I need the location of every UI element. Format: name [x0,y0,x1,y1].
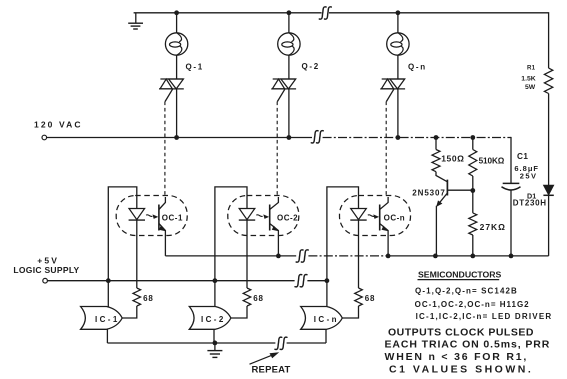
wire LED cathode of OC-n down to 68 ohm resistor [358,220,360,288]
node junction +5V / OC-1 anode column [106,278,111,283]
wire phototransistor emitter of OC-1 down to pulse bus [164,237,166,256]
node junction 120VAC / Q-2 anode [287,135,292,140]
svg-text:5W: 5W [525,84,536,91]
diode D1 [544,185,554,195]
capacitor C1 [503,182,520,184]
node junction 120VAC / Q-n anode [396,135,401,140]
phototransistor of OC-2 [269,205,271,231]
optocoupler OC-n dashed enclosure [340,196,411,236]
wire IC-1 bottom to clock bus [106,329,108,343]
svg-text:IC-1: IC-1 [95,315,120,324]
svg-text:Q-1,Q-2,Q-n= SC142B: Q-1,Q-2,Q-n= SC142B [415,287,518,296]
LED of OC-1 [129,209,145,220]
wire top rail to lamp Q-n [397,13,399,33]
node junction clock bus / IC-2 ground [213,341,218,346]
wire emitter pulse bus left segment [165,255,296,257]
wire triac Q-1 gate to optocoupler (dashed) [164,102,166,198]
svg-text:+5V: +5V [37,255,59,265]
light coupling arrow inside OC-1 [146,215,152,217]
svg-text:DT230H: DT230H [513,199,547,208]
node junction pulse bus / OC-2 emitter [276,254,281,259]
wire lamp to triac Q-1 [176,55,178,79]
wire break on 120VAC line [311,131,318,143]
transistor Q4 2N5307 [446,180,448,196]
svg-text:150Ω: 150Ω [441,154,464,164]
svg-text:OUTPUTS CLOCK PULSED: OUTPUTS CLOCK PULSED [388,326,534,338]
node junction top rail / Q-n column [396,10,401,15]
svg-text:R1: R1 [527,65,536,72]
triac Q-1 [160,78,183,80]
svg-text:510KΩ: 510KΩ [479,157,505,166]
wire break on top rail [319,7,326,19]
node junction top rail / Q-1 column [174,10,179,15]
wire R1 to diode D1 [548,94,550,186]
wire top rail to lamp Q-1 [176,13,178,33]
node junction pulse bus / 2N5307 emitter [433,254,438,259]
svg-text:68: 68 [365,294,376,303]
node junction base of 2N5307 [470,188,475,193]
wire emitter pulse bus right segment [308,255,390,257]
svg-text:68: 68 [253,294,263,303]
svg-text:Q-2: Q-2 [302,62,320,71]
wire triac Q-2 gate lead [277,89,285,102]
wire 120VAC to 150 ohm resistor [435,138,437,150]
svg-text:REPEAT: REPEAT [252,364,291,375]
optocoupler OC-2 dashed enclosure [228,196,299,236]
svg-text:IC-2: IC-2 [201,315,226,324]
wire triac Q-1 gate lead [165,89,173,102]
terminal 120 VAC [42,135,47,140]
svg-text:120 VAC: 120 VAC [34,120,83,130]
node junction 120VAC / Q-1 anode [174,135,179,140]
LED of OC-n [351,209,367,220]
node junction pulse bus / C1 [509,254,514,259]
svg-text:1.5K: 1.5K [521,76,535,83]
svg-text:OC-1,OC-2,OC-n= H11G2: OC-1,OC-2,OC-n= H11G2 [415,300,530,309]
resistor 68 ohm (column 1) [133,288,141,306]
wire +5V rail left segment [47,280,294,282]
wire +5V rail right stub to OC-n column [307,280,327,282]
wire D1 cathode to pulse bus [548,195,550,256]
resistor 27K [469,213,477,235]
wire 2N5307 emitter to pulse bus [435,206,437,256]
wire triac Q-n gate to optocoupler (dashed) [385,102,387,198]
wire IC-2 bottom to clock bus [213,329,215,343]
wire 120VAC line right segment to C1 [323,137,511,139]
wire top supply rail right segment to R1 [329,13,549,68]
wire C1 to pulse bus [510,190,512,256]
gate IC-1 [81,307,123,330]
svg-text:C1: C1 [517,152,528,161]
wire break on +5V rail [295,275,302,287]
wire triac Q-2 anode to 120VAC line [288,89,290,138]
wire triac Q-n gate lead [386,89,394,102]
wire IC-n output to 68 ohm resistor [342,306,358,318]
svg-text:Q-n: Q-n [408,63,427,72]
svg-text:EACH TRIAC ON 0.5ms, PRR: EACH TRIAC ON 0.5ms, PRR [385,339,551,351]
node junction 120VAC / 150 ohm resistor [434,135,439,140]
phototransistor of OC-n [379,205,381,231]
svg-text:IC-1,IC-2,IC-n= LED DRIVER: IC-1,IC-2,IC-n= LED DRIVER [416,312,553,321]
wire triac Q-n anode to 120VAC line [397,89,399,138]
wire 120VAC line left segment [47,137,312,139]
wire lamp to triac Q-n [397,55,399,79]
lamp L-1 [165,33,187,55]
wire IC-1 output to 68 ohm resistor [122,306,137,318]
terminal +5V logic supply [43,278,48,283]
wire break on clock bus (repeat) [275,337,282,349]
node junction +5V / OC-n anode column [325,278,330,283]
node junction pulse bus / 27K resistor [470,254,475,259]
wire LED anode loop of OC-2 (up and over to +5V column) [215,187,247,307]
wire clock bus right segment up to IC-n [287,342,326,344]
node junction pulse bus / OC-n emitter [386,254,391,259]
wire top supply rail left segment [134,12,322,14]
svg-text:2N5307: 2N5307 [412,188,445,197]
svg-text:OC-1: OC-1 [162,214,183,223]
wire triac Q-1 anode to 120VAC line [176,89,178,138]
ground (logic, below IC-2) [214,343,216,351]
wire 510K to base node [472,176,474,213]
svg-text:OC-n: OC-n [384,214,406,223]
node junction 120VAC / 510K resistor [470,135,475,140]
wire triac Q-2 gate to optocoupler (dashed) [276,102,278,198]
repeat arrow [250,355,273,364]
optocoupler OC-1 dashed enclosure [116,196,187,236]
light coupling arrow inside OC-n [368,215,374,217]
svg-text:OC-2: OC-2 [277,214,298,223]
phototransistor of OC-1 [158,205,160,231]
wire LED cathode of OC-2 down to 68 ohm resistor [246,220,248,288]
node junction +5V / OC-2 anode column [213,278,218,283]
svg-text:WHEN n < 36 FOR R1,: WHEN n < 36 FOR R1, [385,351,529,363]
lamp L-n [387,33,409,55]
wire lamp to triac Q-2 [288,55,290,79]
wire 120VAC to 510K resistor [472,138,474,150]
wire LED cathode of OC-1 down to 68 ohm resistor [136,220,138,288]
svg-text:SEMICONDUCTORS: SEMICONDUCTORS [418,269,502,279]
wire clock bus left segment [107,342,275,344]
svg-text:25V: 25V [520,171,538,180]
svg-text:Q-1: Q-1 [186,62,204,71]
resistor 68 ohm (column n) [355,288,363,306]
triac Q-n [382,78,405,80]
svg-text:LOGIC SUPPLY: LOGIC SUPPLY [13,265,79,275]
wire phototransistor emitter of OC-2 down to pulse bus [277,237,279,256]
LED of OC-2 [239,209,255,220]
resistor 510K [469,150,477,177]
resistor 68 ohm (column 2) [243,288,251,306]
resistor R1 [544,68,552,93]
svg-text:IC-n: IC-n [314,315,339,324]
wire LED anode loop of OC-n (up and over to +5V column) [327,187,359,307]
gate IC-2 [189,307,231,330]
wire IC-n bottom to clock bus [325,329,327,343]
gate IC-n [301,307,343,330]
svg-text:27KΩ: 27KΩ [480,222,506,232]
light coupling arrow inside OC-2 [256,215,262,217]
lamp L-2 [278,33,300,55]
wire top rail to lamp Q-2 [288,13,290,33]
svg-text:C1 VALUES SHOWN.: C1 VALUES SHOWN. [389,364,533,376]
node junction top rail / Q-2 column [287,10,292,15]
wire 27K to pulse bus [472,235,474,256]
ground (top left) [135,13,137,23]
svg-text:68: 68 [143,294,154,303]
triac Q-2 [273,78,296,80]
wire IC-2 output to 68 ohm resistor [231,306,247,318]
wire LED anode loop of OC-1 (up and over to +5V column) [108,187,137,307]
wire 150 ohm to 2N5307 collector [436,172,447,182]
wire phototransistor emitter of OC-n down to pulse bus [387,237,389,256]
resistor 150 ohm [432,150,440,172]
wire break on pulse bus [296,250,303,262]
